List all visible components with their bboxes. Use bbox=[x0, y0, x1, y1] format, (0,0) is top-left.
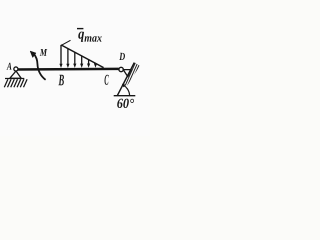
angle arc arrowhead bbox=[122, 84, 125, 88]
angle arc 60 bbox=[123, 85, 130, 96]
distributed load: hypotenuse bbox=[61, 45, 104, 68]
roller support at D: ground line bbox=[114, 95, 136, 97]
moment M: arrowhead bbox=[30, 51, 36, 57]
roller support at D: pin circle bbox=[119, 67, 123, 71]
q_max label: overbar bbox=[77, 28, 83, 30]
roller support at D: triangle bbox=[123, 70, 131, 77]
distributed load: left edge + arrow bbox=[60, 45, 62, 65]
pin support at A: pin circle bbox=[14, 67, 18, 71]
svg-text:60°: 60° bbox=[117, 97, 135, 112]
svg-text:C: C bbox=[104, 73, 109, 89]
beam AD bbox=[16, 68, 119, 71]
svg-text:max: max bbox=[84, 33, 102, 45]
pin support at A: triangle bbox=[10, 71, 21, 78]
svg-text:B: B bbox=[58, 72, 65, 89]
roller support at D: hatching band bbox=[122, 62, 140, 86]
svg-text:M: M bbox=[39, 48, 47, 59]
svg-text:A: A bbox=[6, 62, 12, 73]
pin support at A: hatching bbox=[4, 79, 27, 87]
moment M: arc bbox=[34, 54, 46, 80]
distributed load: arrow 2 bbox=[67, 49, 69, 65]
distributed load: arrow 4 bbox=[81, 56, 83, 65]
svg-text:D: D bbox=[118, 51, 125, 63]
distributed load: arrow 6 bbox=[95, 63, 97, 64]
pin support at A: ground line bbox=[5, 78, 24, 80]
q_max label: leader line bbox=[62, 40, 71, 45]
roller support at D: inclined surface line bbox=[117, 63, 134, 96]
distributed load: arrow 5 bbox=[88, 59, 90, 64]
distributed load: arrow 3 bbox=[74, 52, 76, 64]
